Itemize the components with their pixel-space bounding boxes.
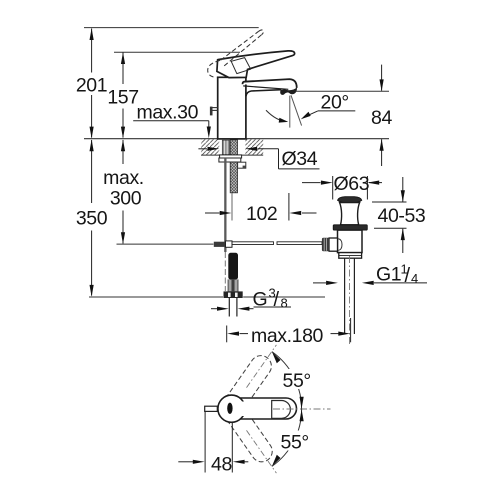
label 55 degrees lower: [278, 431, 312, 451]
spout: [243, 79, 297, 96]
svg-text:201: 201: [76, 75, 107, 97]
pop-up pull rod (vertical): [224, 158, 226, 252]
lever face line: [231, 58, 251, 74]
faucet body column: [218, 77, 246, 139]
plan view: inner lever end line: [272, 401, 291, 419]
max.300 reference line (pop-up rod depth): [117, 243, 214, 245]
pop-up linkage horizontal rod: [232, 242, 322, 245]
faucet threaded shank (knurled): [230, 140, 237, 193]
dimension 102: [288, 193, 290, 221]
drain tailpipe: [344, 258, 346, 334]
label G 3/8: [211, 307, 291, 309]
dimension 48: [178, 412, 248, 473]
dimension 350: [91, 140, 93, 296]
svg-text:G1: G1: [376, 264, 401, 286]
hose connector (knurled): [228, 279, 239, 291]
drain centreline: [349, 256, 351, 346]
svg-text:max.: max.: [103, 167, 144, 189]
plan view: horizontal centreline: [273, 408, 331, 410]
svg-text:350: 350: [76, 208, 108, 230]
spray direction arc with arrow: [266, 110, 287, 121]
svg-text:/: /: [405, 265, 411, 287]
faucet shank sleeve: [222, 140, 229, 154]
plan view: lever swung down (dashed): [226, 407, 276, 466]
bottom reference line (350 end, y=296.6): [89, 296, 223, 298]
label 55 degrees upper: [281, 369, 313, 389]
svg-text:102: 102: [246, 203, 277, 225]
dimension 84: [296, 90, 390, 92]
svg-text:/: /: [274, 289, 280, 311]
hose hex nut G3/8: [224, 291, 243, 298]
drain bottom flange: [339, 253, 362, 259]
svg-text:max.180: max.180: [251, 325, 324, 347]
plan view: pop-up knob stub: [205, 406, 218, 411]
linkage clamp at rod: [214, 242, 226, 247]
dimension 40-53: [372, 177, 407, 253]
dimension 157: [122, 53, 124, 138]
water spray angled line: [291, 95, 302, 125]
svg-text:55°: 55°: [281, 432, 309, 454]
svg-text:300: 300: [110, 188, 142, 210]
plan view: swung lever centrelines (dash-dot): [247, 345, 277, 388]
lever handle raised (dashed): [208, 30, 264, 78]
svg-text:Ø34: Ø34: [282, 148, 318, 170]
svg-text:20°: 20°: [321, 92, 349, 114]
swing arc upper 55: [272, 352, 302, 409]
dimension max.300: [122, 140, 124, 244]
svg-text:40-53: 40-53: [378, 205, 426, 227]
mounting nut: [219, 158, 241, 162]
pop-up rod knob on body: [210, 107, 218, 116]
dimension diameter 34: [198, 149, 319, 169]
plan view: slot in body: [227, 403, 232, 414]
plan view: faucet body and handle (solid): [218, 395, 297, 422]
svg-text:G: G: [253, 288, 268, 310]
svg-text:55°: 55°: [283, 370, 311, 392]
deck cross-section hatch right: [245, 139, 263, 155]
dimension 201: [91, 29, 93, 138]
svg-text:8: 8: [281, 296, 288, 311]
aerator (dark): [280, 87, 297, 95]
pop-up socket knurled nut: [322, 238, 329, 252]
pop-up socket cylinder: [329, 238, 338, 251]
plan view: lever swung up (dashed): [225, 351, 275, 410]
svg-text:157: 157: [107, 87, 138, 109]
extension line A (top of raised lever, y=27.4): [84, 27, 259, 29]
drain body: [338, 230, 363, 253]
svg-text:84: 84: [371, 107, 392, 129]
drain body socket curve: [338, 239, 342, 251]
drain seal ring: [333, 225, 367, 230]
pop-up waste drain: plug: [338, 197, 362, 203]
extension line B (top of closed lever, y=52): [114, 51, 240, 53]
svg-text:48: 48: [211, 454, 232, 476]
deck surface line y=138.7: [84, 138, 389, 140]
lever handle (closed, solid): [217, 51, 295, 78]
faucet centreline below shank: [231, 193, 233, 221]
hose: flexible connection (black): [228, 253, 238, 280]
svg-text:Ø63: Ø63: [334, 173, 370, 195]
svg-text:4: 4: [411, 271, 418, 286]
swing arc lower 55: [272, 409, 302, 466]
hose end tube: [228, 298, 230, 317]
dimension diameter 63: [302, 176, 382, 200]
dimension max.180: [227, 318, 351, 342]
deck cross-section hatch left: [201, 139, 263, 155]
pop-up rod dashed continuation: [224, 252, 226, 291]
mounting washer: [220, 155, 242, 158]
hose retaining clip: [238, 162, 246, 168]
label G1 1/4: [313, 282, 427, 284]
water spray vertical line: [289, 96, 291, 128]
drain neck: [340, 203, 360, 225]
